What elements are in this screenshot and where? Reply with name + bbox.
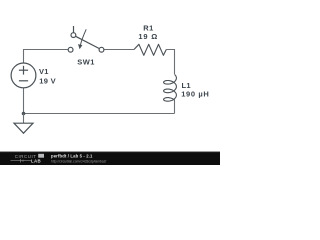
SW1 arrowhead bbox=[78, 44, 82, 49]
switch SW1 bbox=[68, 26, 104, 52]
svg-text:190 µH: 190 µH bbox=[181, 89, 209, 98]
watermark bar bbox=[0, 152, 220, 165]
wire: SW1 right terminal to resistor R1 left lead bbox=[104, 49, 134, 51]
wire: junction down to ground bbox=[23, 114, 25, 124]
inductor L1 bbox=[164, 75, 177, 102]
CircuitLab logo block bbox=[38, 154, 44, 158]
svg-text:http://circuitlab.com/c/433cdp: http://circuitlab.com/c/433cdp/lamba2/ bbox=[51, 159, 106, 163]
svg-text:perfbdt / Lab 5 - 2.1: perfbdt / Lab 5 - 2.1 bbox=[51, 153, 93, 158]
SW1 left terminal bbox=[68, 47, 73, 52]
SW1 open-throw terminal circle bbox=[71, 33, 76, 38]
svg-text:V1: V1 bbox=[39, 67, 49, 76]
svg-text:19 V: 19 V bbox=[39, 77, 56, 86]
svg-text:LAB: LAB bbox=[31, 158, 41, 163]
svg-text:19 Ω: 19 Ω bbox=[138, 32, 158, 41]
ground bbox=[14, 123, 33, 133]
SW1 right terminal bbox=[99, 47, 104, 52]
junction node at bottom rail bbox=[22, 112, 26, 116]
resistor R1 bbox=[134, 44, 166, 55]
CircuitLab logo symbol ticks bbox=[20, 159, 22, 163]
wire: top-left from V1 top up and right to SW1 left terminal bbox=[24, 50, 69, 64]
svg-text:SW1: SW1 bbox=[77, 58, 95, 67]
wire: bottom rail right to left bbox=[24, 113, 175, 115]
SW1 throw stub bbox=[73, 26, 75, 33]
CircuitLab logo schematic line bbox=[11, 160, 32, 162]
voltage source V1 bbox=[11, 63, 36, 88]
wire: R1 right lead to top-right corner and down to L1 top bbox=[166, 50, 174, 75]
SW1 blade bbox=[76, 36, 100, 48]
SW1 actuator arrow bbox=[80, 29, 86, 45]
wire: L1 bottom down to bottom rail bbox=[174, 100, 176, 114]
wire: V1 bottom down to junction bbox=[23, 88, 25, 114]
